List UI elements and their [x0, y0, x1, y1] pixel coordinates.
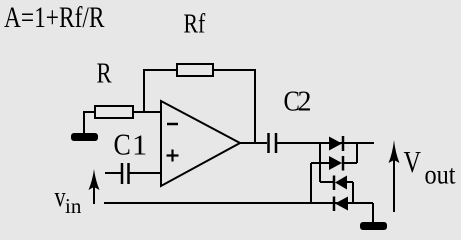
svg-text:R: R — [97, 57, 113, 89]
svg-text:A=1+Rf/R: A=1+Rf/R — [4, 0, 105, 33]
svg-text:V: V — [404, 145, 421, 180]
svg-text:out: out — [425, 159, 456, 189]
svg-text:Rf: Rf — [184, 9, 206, 39]
svg-text:in: in — [65, 194, 82, 218]
svg-text:2: 2 — [298, 87, 312, 118]
svg-text:1: 1 — [132, 130, 147, 161]
svg-text:C: C — [114, 129, 131, 162]
